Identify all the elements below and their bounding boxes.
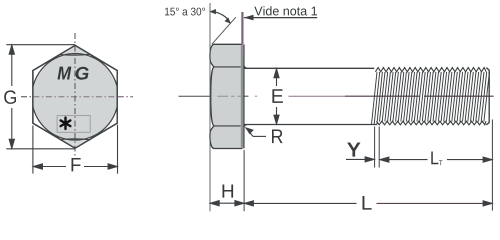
thread runout extension lines [374, 127, 376, 168]
bottom corner chamfer arc [60, 139, 91, 140]
dimension F extension line left [32, 126, 34, 174]
note leader: Vide nota 1 [244, 6, 318, 20]
dimension E arrows + label [274, 69, 279, 124]
asterisk mark [61, 118, 71, 129]
dimension LT [380, 157, 492, 162]
angle arc arrowhead left [209, 9, 216, 14]
bottom vertex chamfer wedge [60, 139, 91, 148]
dimension H line + arrows [210, 201, 244, 206]
head silhouette stroke [210, 44, 214, 148]
leader R [245, 127, 282, 143]
washer face strip [241, 45, 245, 148]
fillet under head top [244, 65, 248, 68]
thread crest zigzag top [375, 68, 486, 125]
centerline vertical (left view) [74, 33, 76, 158]
dimension F extension line right [117, 125, 119, 174]
centerline horizontal (side view) [179, 95, 494, 97]
dimension L extension right [491, 120, 493, 211]
dimension G extension line bottom [6, 148, 75, 150]
label H [223, 185, 234, 198]
dimension Y [346, 143, 374, 162]
label F [72, 158, 81, 171]
top corner chamfer arc [60, 53, 91, 56]
inscribed circle stroke [32, 54, 119, 141]
bolt head side (gray body) [210, 44, 241, 148]
label LT [431, 152, 438, 165]
washer face edge above head [241, 12, 243, 44]
dimension G line + arrows [9, 45, 14, 148]
hexagon outline again on top [33, 45, 117, 148]
fillet under head bottom [244, 125, 248, 128]
dimension F line + arrows [33, 164, 117, 169]
dimension G extension line top [6, 44, 75, 46]
head face boundary top [214, 66, 241, 68]
dimension H extension right / washer ext [243, 150, 245, 211]
chamfer angle extension line (vertical) [209, 3, 211, 211]
marking MG [58, 67, 72, 80]
centerline horizontal (left view) [21, 96, 32, 98]
top vertex chamfer wedge [60, 45, 91, 54]
marking frame (box) [57, 116, 90, 133]
chamfer angle arc [216, 12, 228, 19]
angle arc arrowhead right [225, 17, 232, 23]
head bottom edge [214, 148, 243, 150]
head face boundary bottom [214, 125, 241, 127]
shank outline top [244, 67, 374, 69]
dimension L [244, 201, 492, 206]
chamfer angle slant line [212, 17, 236, 44]
head top edge [214, 43, 243, 45]
label L [363, 196, 372, 210]
hex head outline [33, 45, 117, 148]
shank outline bottom [244, 124, 377, 126]
thread flank lines [372, 72, 490, 124]
chamfer face (gray circle) [32, 54, 119, 141]
bolt end face [486, 68, 489, 125]
label G [4, 90, 16, 104]
label 15 a 30 [165, 8, 205, 16]
